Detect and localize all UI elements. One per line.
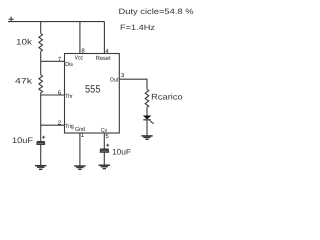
wire pin 5 Cv to C2 (103, 133, 105, 149)
svg-text:Duty cicle=54.8 %: Duty cicle=54.8 % (119, 7, 194, 16)
svg-text:Gnd: Gnd (75, 126, 85, 133)
svg-text:Out: Out (110, 76, 119, 83)
wire R3 to LED (146, 107, 148, 115)
svg-text:Vcc: Vcc (75, 55, 83, 62)
wire supply to pin 4 Reset (103, 22, 105, 54)
wire node to pin 7 Dis (41, 60, 65, 62)
svg-text:Trig: Trig (65, 123, 73, 130)
svg-text:47k: 47k (15, 76, 33, 85)
svg-text:Dis: Dis (65, 61, 73, 68)
ground G3 under C2 (99, 165, 110, 168)
ground G1 (35, 166, 46, 170)
svg-text:555: 555 (85, 84, 101, 96)
svg-text:Cv: Cv (101, 127, 107, 134)
resistor R2 47k (39, 75, 43, 93)
ground G4 under LED (141, 136, 152, 139)
wire pin7 node to R2 (40, 61, 42, 75)
LED D1 (143, 116, 154, 125)
resistor R3 Rcarico (145, 89, 149, 107)
wire R1 to pin7 node (40, 51, 42, 61)
svg-text:Thr: Thr (65, 93, 72, 100)
svg-text:Rcarico: Rcarico (151, 93, 183, 102)
wire pin 3 Out (119, 79, 147, 89)
wire node to pin 6 Thr (41, 94, 65, 96)
wire LED to ground (146, 120, 148, 135)
wire R2 to pin6 node (40, 93, 42, 95)
wire pin2 node to C1 (40, 125, 42, 141)
resistor R1 10k (39, 33, 43, 51)
wire C2 to ground (103, 152, 105, 165)
svg-text:Reset: Reset (96, 55, 111, 62)
svg-text:10uF: 10uF (112, 148, 131, 157)
wire pin6 node to pin2 node (40, 95, 42, 125)
svg-text:F=1.4Hz: F=1.4Hz (120, 23, 155, 32)
svg-text:10uF: 10uF (12, 136, 33, 145)
wire top supply rail (8, 21, 104, 23)
wire C1 to ground (40, 145, 42, 166)
svg-text:10k: 10k (16, 38, 33, 47)
wire node to pin 2 Trig (41, 124, 65, 126)
capacitor C1 10uF (37, 136, 45, 145)
wire supply to pin 8 Vcc (79, 22, 81, 54)
ground G2 under pin 1 (74, 166, 85, 169)
capacitor C2 10uF (100, 144, 109, 153)
wire pin 1 Gnd to ground (79, 133, 81, 166)
op-amp U1 555 timer body (65, 54, 120, 134)
wire supply to R1 (40, 22, 42, 34)
node VCC plus terminal (9, 17, 14, 22)
